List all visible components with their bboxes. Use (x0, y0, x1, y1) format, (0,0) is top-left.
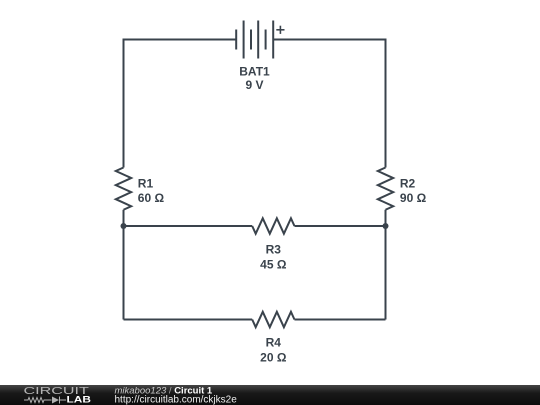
wire node A to R3 left (124, 225, 253, 227)
svg-text:45 Ω: 45 Ω (260, 257, 287, 271)
svg-text:90 Ω: 90 Ω (400, 191, 427, 205)
wire R4 right to bottom-right (294, 319, 385, 321)
node B junction dot (383, 223, 389, 229)
resistor R1 (116, 168, 131, 210)
wire R1 bottom to bottom-left corner (123, 210, 125, 320)
svg-text:BAT1: BAT1 (239, 65, 270, 79)
resistor R4 (252, 312, 294, 327)
wire R3 right to node B (294, 225, 385, 227)
battery BAT1 plates (236, 21, 273, 59)
footer bar (0, 385, 540, 405)
svg-text:R3: R3 (266, 243, 282, 257)
CircuitLab logo resistor-diode glyph (24, 397, 66, 404)
node A junction dot (121, 223, 127, 229)
svg-text:9 V: 9 V (245, 78, 263, 92)
svg-text:R1: R1 (138, 176, 154, 190)
wire bottom-left to R4 left (124, 319, 253, 321)
svg-text:http://circuitlab.com/ckjks2e: http://circuitlab.com/ckjks2e (115, 395, 238, 405)
battery plus sign (276, 26, 284, 34)
resistor R3 (252, 218, 294, 233)
svg-text:R2: R2 (400, 176, 416, 190)
svg-text:60 Ω: 60 Ω (138, 191, 165, 205)
wire top-right from battery plus to R2 top (273, 40, 385, 168)
resistor R2 (378, 168, 393, 210)
svg-text:LAB: LAB (67, 395, 92, 405)
wire R2 bottom to bottom-right corner (385, 210, 387, 320)
wire top-left from battery minus to R1 top (124, 40, 237, 168)
svg-text:20 Ω: 20 Ω (260, 350, 287, 364)
svg-text:R4: R4 (266, 336, 282, 350)
